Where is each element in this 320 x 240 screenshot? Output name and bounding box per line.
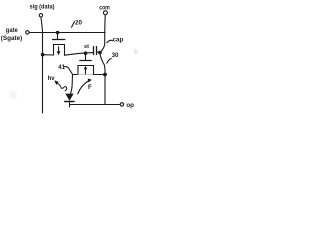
svg-text:30: 30: [112, 52, 119, 59]
junction: storage node dot: [84, 51, 88, 55]
hv arrowhead: [54, 80, 59, 85]
svg-text:41: 41: [58, 64, 65, 71]
leader for 30: [107, 59, 112, 64]
photodiode 41 cathode stub: [69, 102, 71, 107]
leader for 20: [72, 22, 75, 28]
hv arrow squiggle tail: [57, 83, 66, 91]
photodiode 41 triangle: [65, 94, 73, 101]
transistor 30 arrow shaft: [85, 69, 87, 74]
svg-text:F: F: [88, 84, 92, 91]
svg-text:op: op: [126, 102, 134, 109]
transistor 30 arrowhead (up): [84, 66, 88, 70]
svg-text:hν: hν: [48, 76, 56, 82]
transistor 30 gate bar: [80, 60, 91, 62]
leader for 41: [64, 67, 72, 74]
junction: T30 drain / com dot: [103, 73, 107, 77]
photodiode 41 anode wire: [71, 75, 73, 94]
capacitor cap left plate: [93, 47, 95, 55]
wire: storage node (T20 drain to capacitor): [65, 53, 94, 56]
wire: sig data line vertical: [41, 18, 43, 114]
wire: T30 drain to com line: [94, 74, 106, 76]
svg-text:(Sgate): (Sgate): [1, 35, 23, 42]
sig terminal: [39, 14, 42, 17]
transistor 30 channel: [78, 66, 94, 75]
svg-text:20: 20: [75, 20, 82, 27]
svg-text:gate: gate: [6, 27, 19, 34]
wire: cap right plate to junction: [97, 51, 100, 54]
capacitor cap right plate: [96, 47, 98, 55]
transistor 20 gate stub: [57, 33, 59, 40]
transistor 20 arrowhead (down): [57, 51, 61, 55]
gate terminal: [26, 31, 30, 35]
wire: com line lower section: [100, 53, 105, 104]
wire: op horizontal: [70, 104, 120, 106]
com terminal: [103, 11, 107, 15]
F curved arrow: [78, 81, 89, 94]
svg-text:cap: cap: [113, 36, 124, 43]
photodiode 41 cathode bar: [65, 101, 74, 103]
junction: gate wire to T20 gate: [56, 31, 60, 35]
wire: gate horizontal: [30, 32, 105, 34]
leader for cap: [107, 40, 113, 42]
wire: com line upper vertical: [100, 15, 105, 52]
wire: T30 faint middle rail: [78, 74, 94, 76]
junction: cap/com dot: [98, 51, 102, 55]
svg-text:st: st: [84, 44, 89, 50]
transistor 30 gate stub: [85, 53, 87, 60]
transistor 20 channel: [54, 45, 65, 56]
svg-text:sig (data): sig (data): [30, 4, 55, 11]
scan speck: [134, 49, 138, 54]
scan smudge: [10, 91, 17, 99]
wire: T30 source to diode: [72, 74, 78, 76]
junction: sig line to T20 source: [41, 53, 45, 57]
wire: T20 source to sig line: [43, 54, 54, 56]
transistor 20 arrow shaft: [58, 47, 60, 52]
F arrowhead: [88, 78, 92, 82]
transistor 20 gate bar: [53, 39, 65, 41]
op terminal: [120, 103, 123, 106]
